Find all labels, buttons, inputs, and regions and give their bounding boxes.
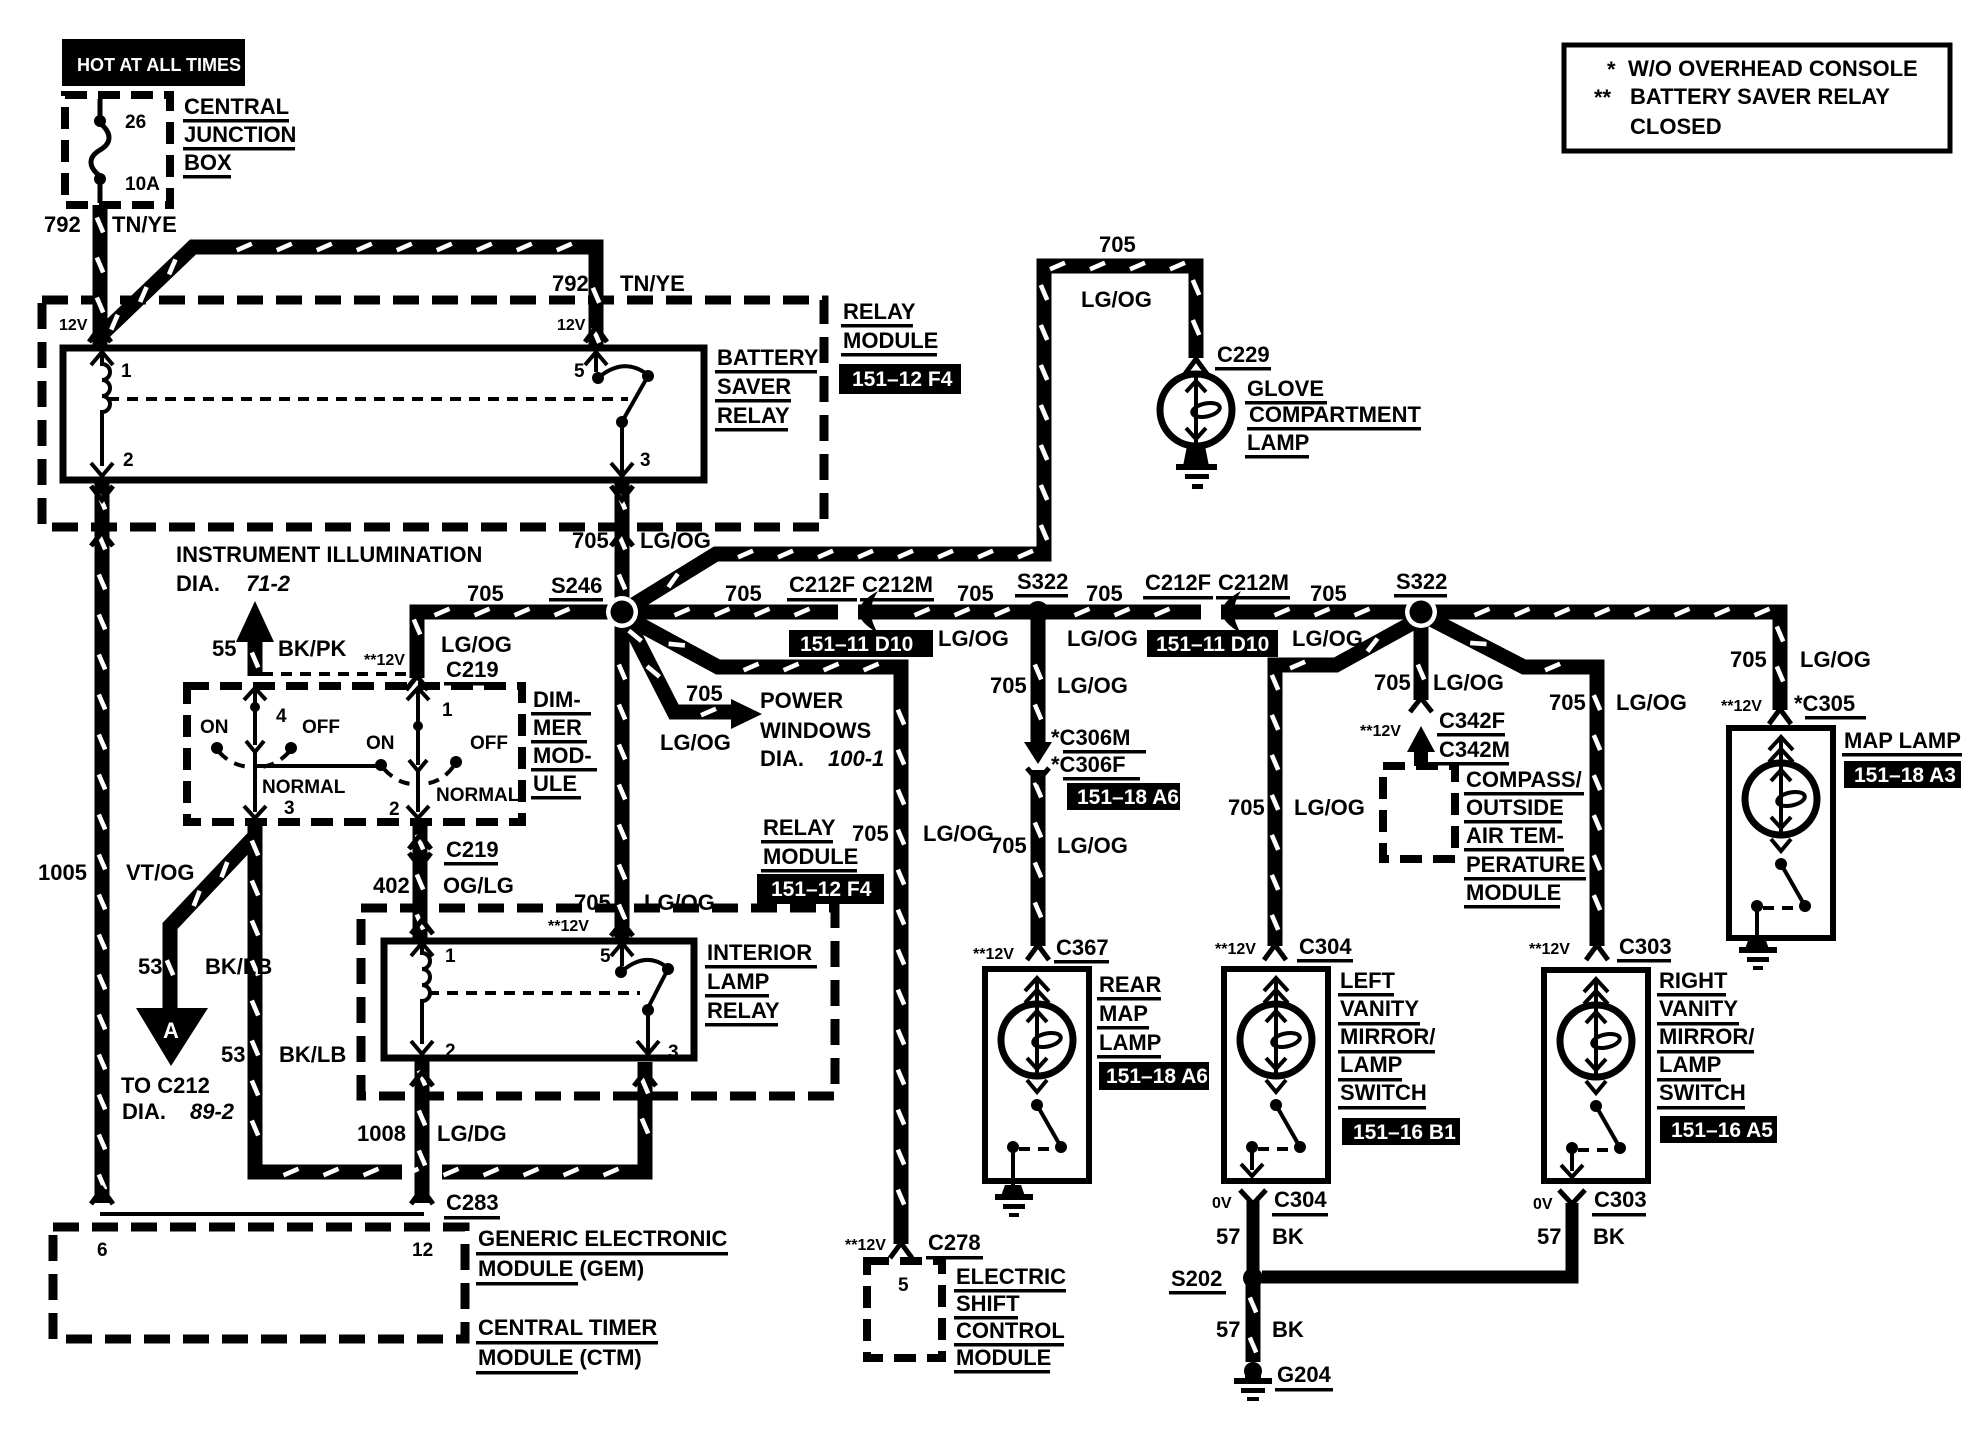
arrow A to C212	[136, 1008, 208, 1066]
dimmer switch pin1-2	[375, 688, 462, 818]
svg-text:705: 705	[467, 581, 504, 606]
svg-text:705: 705	[957, 581, 994, 606]
svg-text:BATTERY: BATTERY	[717, 345, 819, 370]
svg-text:2: 2	[445, 1041, 456, 1062]
wire 705 LG/OG relay pin3 to S246	[615, 482, 630, 612]
svg-text:705: 705	[574, 890, 611, 915]
wire 792 TN/YE branch to pin5	[100, 247, 596, 350]
svg-text:53: 53	[138, 954, 162, 979]
dimmer module dashed box	[187, 686, 522, 822]
svg-text:705: 705	[990, 673, 1027, 698]
map lamp ground	[1739, 938, 1777, 970]
wire 57 BK left vanity to S202	[1247, 1200, 1260, 1272]
svg-text:LG/OG: LG/OG	[1294, 795, 1365, 820]
svg-text:BATTERY SAVER RELAY: BATTERY SAVER RELAY	[1630, 84, 1890, 109]
legend box	[1564, 45, 1950, 151]
connector 12V splay left	[89, 327, 111, 342]
wire 1005 VT/OG relay pin2 to GEM	[95, 482, 110, 1203]
labels: A arrow / 53	[38, 860, 346, 1124]
connector C212F C212M gap 2	[1201, 601, 1221, 624]
svg-text:705: 705	[1730, 647, 1767, 672]
labels: bottom 57 BK / S202 / G204	[1169, 1187, 1647, 1392]
svg-text:LG/OG: LG/OG	[938, 626, 1009, 651]
svg-text:1: 1	[121, 361, 132, 382]
glove lamp ground	[1176, 446, 1217, 489]
svg-text:DIM-: DIM-	[533, 687, 581, 712]
module edge splays	[91, 532, 113, 546]
svg-text:LG/OG: LG/OG	[441, 632, 512, 657]
svg-text:C367: C367	[1056, 935, 1109, 960]
svg-text:SWITCH: SWITCH	[1340, 1080, 1427, 1105]
svg-text:BK: BK	[1593, 1224, 1625, 1249]
svg-text:705: 705	[1099, 232, 1136, 257]
splice node S246	[606, 596, 638, 628]
svg-text:*: *	[1607, 57, 1616, 82]
wire 705 LG/OG main bus to map lamp C305	[622, 612, 1780, 710]
svg-text:3: 3	[284, 798, 295, 819]
connector C283 splay right	[411, 1189, 433, 1204]
svg-text:1: 1	[445, 946, 456, 967]
svg-text:6: 6	[97, 1240, 108, 1261]
interior relay coil pins 1-2	[411, 943, 433, 1054]
svg-text:MODULE: MODULE	[1466, 880, 1561, 905]
svg-text:LAMP: LAMP	[1659, 1052, 1721, 1077]
wire 402 OG/LG dimmer pin2 to interior relay pin1	[413, 822, 428, 944]
svg-text:OFF: OFF	[470, 733, 508, 754]
svg-text:NORMAL: NORMAL	[262, 777, 346, 798]
svg-text:SAVER: SAVER	[717, 374, 791, 399]
svg-text:C229: C229	[1217, 342, 1270, 367]
svg-text:LAMP: LAMP	[1099, 1030, 1161, 1055]
svg-text:RELAY: RELAY	[707, 998, 780, 1023]
svg-text:**12V: **12V	[364, 652, 405, 669]
svg-text:C219: C219	[446, 657, 499, 682]
svg-text:12V: 12V	[557, 317, 586, 334]
dimmer link bar	[255, 764, 378, 768]
svg-text:*C305: *C305	[1794, 691, 1855, 716]
wire 55 BK/PK arrow stem	[248, 640, 263, 676]
svg-text:LG/OG: LG/OG	[1800, 647, 1871, 672]
svg-text:TO C212: TO C212	[121, 1073, 210, 1098]
svg-text:792: 792	[44, 212, 81, 237]
connector C303 splay	[1586, 945, 1608, 960]
connector C212F C212M arrow 2	[1222, 591, 1241, 633]
svg-text:LAMP: LAMP	[1340, 1052, 1402, 1077]
wire 57 BK S202 to G204	[1246, 1285, 1261, 1362]
svg-text:151–11 D10: 151–11 D10	[800, 633, 913, 656]
svg-text:2: 2	[123, 450, 134, 471]
svg-text:402: 402	[373, 873, 410, 898]
wire 57 BK S202 to right vanity	[1262, 1203, 1572, 1277]
labels: rear map lamp	[1097, 972, 1209, 1090]
svg-text:LG/OG: LG/OG	[644, 890, 715, 915]
svg-text:53: 53	[221, 1042, 245, 1067]
svg-text:LG/OG: LG/OG	[640, 528, 711, 553]
svg-text:POWER: POWER	[760, 688, 843, 713]
wire 705 LG/OG S246 power windows stub	[626, 618, 731, 712]
svg-text:AIR TEM-: AIR TEM-	[1466, 823, 1564, 848]
svg-text:MER: MER	[533, 715, 582, 740]
interior lamp relay box	[384, 941, 694, 1058]
central junction box (dashed)	[65, 95, 170, 205]
svg-text:151–11 D10: 151–11 D10	[1156, 633, 1269, 656]
svg-text:LG/OG: LG/OG	[1081, 287, 1152, 312]
svg-text:OFF: OFF	[302, 717, 340, 738]
svg-text:792: 792	[552, 271, 589, 296]
GEM/CTM dashed box	[53, 1227, 465, 1339]
svg-text:MODULE: MODULE	[956, 1345, 1051, 1370]
rear map lamp ground	[995, 1185, 1033, 1217]
svg-text:705: 705	[725, 581, 762, 606]
wire 705 LG/OG S322 riser to C306	[1031, 612, 1046, 742]
svg-text:705: 705	[1310, 581, 1347, 606]
wire stub C342M to compass box	[1414, 748, 1428, 766]
connector C306F splay	[1027, 768, 1049, 781]
connector C342M arrow	[1407, 726, 1435, 752]
map lamp bulb and switch	[1745, 737, 1817, 938]
connector C305 splay	[1769, 709, 1791, 724]
svg-text:ELECTRIC: ELECTRIC	[956, 1264, 1066, 1289]
rear map lamp box	[985, 969, 1089, 1181]
fuse 26 10A	[91, 99, 109, 203]
labels: vanity mirrors	[1215, 934, 1777, 1145]
svg-text:LG/OG: LG/OG	[1616, 690, 1687, 715]
svg-text:ON: ON	[200, 717, 229, 738]
svg-text:VANITY: VANITY	[1659, 996, 1738, 1021]
svg-text:MAP LAMP: MAP LAMP	[1844, 728, 1961, 753]
connector splay pin3 out	[611, 486, 633, 500]
svg-text:89-2: 89-2	[190, 1099, 235, 1124]
connector C219 splay	[406, 676, 428, 690]
relay link dashed	[108, 397, 628, 401]
svg-text:151–18 A6: 151–18 A6	[1077, 786, 1179, 809]
labels: power windows	[660, 681, 884, 771]
svg-text:RIGHT: RIGHT	[1659, 968, 1728, 993]
svg-text:*C306F: *C306F	[1051, 752, 1126, 777]
svg-text:VT/OG: VT/OG	[126, 860, 194, 885]
connector C283 line	[100, 1212, 424, 1216]
svg-text:705: 705	[1086, 581, 1123, 606]
right vanity bulb and switch	[1560, 979, 1632, 1177]
svg-text:LG/OG: LG/OG	[1292, 626, 1363, 651]
svg-text:1008: 1008	[357, 1121, 406, 1146]
svg-text:ULE: ULE	[533, 771, 577, 796]
svg-text:LG/OG: LG/OG	[1433, 670, 1504, 695]
connector C367 splay	[1027, 945, 1049, 960]
splice node S322 (1)	[1027, 601, 1049, 623]
svg-text:OG/LG: OG/LG	[443, 873, 514, 898]
wire 705 LG/OG S246 to interior lamp relay pin5	[615, 612, 630, 938]
svg-text:HOT AT ALL TIMES: HOT AT ALL TIMES	[77, 55, 241, 75]
svg-text:SWITCH: SWITCH	[1659, 1080, 1746, 1105]
connector 12V splay right	[585, 327, 607, 342]
svg-text:**12V: **12V	[1360, 723, 1401, 740]
svg-text:CONTROL: CONTROL	[956, 1318, 1065, 1343]
svg-text:TN/YE: TN/YE	[112, 212, 177, 237]
svg-text:151–18 A3: 151–18 A3	[1854, 764, 1956, 787]
hatch ticks	[97, 218, 1783, 1353]
svg-text:**: **	[1594, 85, 1612, 110]
labels: legend	[1594, 56, 1918, 139]
svg-text:LG/OG: LG/OG	[923, 821, 994, 846]
svg-text:OUTSIDE: OUTSIDE	[1466, 795, 1564, 820]
svg-text:5: 5	[574, 361, 585, 382]
relay module dashed box (interior lamp)	[361, 908, 835, 1096]
svg-text:INTERIOR: INTERIOR	[707, 940, 812, 965]
svg-text:57: 57	[1537, 1224, 1561, 1249]
svg-text:LAMP: LAMP	[1247, 430, 1309, 455]
svg-text:3: 3	[668, 1042, 679, 1063]
connector C212F C212M gap 1	[838, 601, 858, 624]
wire 53 BK/LB dimmer pin3 to interior relay pin3	[255, 828, 645, 1172]
svg-text:**12V: **12V	[1529, 941, 1570, 958]
svg-text:S246: S246	[551, 573, 602, 598]
svg-text:MODULE: MODULE	[763, 844, 858, 869]
wire 792 TN/YE fuse to relay	[93, 205, 108, 350]
svg-text:MODULE (CTM): MODULE (CTM)	[478, 1345, 642, 1370]
svg-text:LG/OG: LG/OG	[1057, 833, 1128, 858]
relay coil pins 1-2	[91, 352, 113, 476]
svg-text:151–12 F4: 151–12 F4	[771, 878, 872, 901]
connector C229 splay	[1185, 359, 1207, 374]
rear map lamp bulb and switch	[1001, 978, 1073, 1185]
svg-text:RELAY: RELAY	[763, 815, 836, 840]
svg-text:26: 26	[125, 112, 146, 133]
relay switch pins 5-3	[585, 352, 654, 476]
svg-text:C304: C304	[1299, 934, 1352, 959]
labels: 1008 / C283 / GEM	[97, 1121, 728, 1375]
connector C283 splay left	[91, 1189, 113, 1204]
wire 705 LG/OG S246 to electric shift module C278	[624, 616, 901, 1244]
svg-text:C304: C304	[1274, 1187, 1327, 1212]
wire 705 LG/OG S322 to right vanity C303	[1425, 616, 1597, 946]
labels: relay module 2	[757, 815, 994, 904]
labels: instrument illumination	[176, 542, 482, 661]
svg-text:55: 55	[212, 636, 236, 661]
svg-text:PERATURE: PERATURE	[1466, 852, 1585, 877]
svg-text:COMPASS/: COMPASS/	[1466, 767, 1582, 792]
svg-text:W/O OVERHEAD CONSOLE: W/O OVERHEAD CONSOLE	[1628, 56, 1918, 81]
svg-text:RELAY: RELAY	[843, 299, 916, 324]
wire 1008 LG/DG interior relay pin2 to C283	[415, 1058, 430, 1203]
hot at all times banner	[62, 39, 245, 86]
svg-text:C283: C283	[446, 1190, 499, 1215]
svg-text:0V: 0V	[1533, 1196, 1553, 1213]
svg-text:705: 705	[1374, 670, 1411, 695]
svg-text:**12V: **12V	[845, 1237, 886, 1254]
labels: S246 and bus	[364, 569, 1447, 686]
svg-text:CENTRAL TIMER: CENTRAL TIMER	[478, 1315, 657, 1340]
svg-text:BK/LB: BK/LB	[205, 954, 272, 979]
svg-text:1: 1	[442, 700, 453, 721]
connector C304 splay	[1264, 945, 1286, 960]
connector C212F C212M arrow 1	[859, 591, 878, 633]
svg-text:705: 705	[990, 833, 1027, 858]
svg-text:C212F: C212F	[1145, 570, 1211, 595]
wire 705 LG/OG C306 to C367 rear map lamp	[1031, 770, 1046, 946]
svg-text:C212F: C212F	[789, 572, 855, 597]
labels: compass module	[1228, 670, 1586, 909]
connector C278 splay	[890, 1243, 912, 1258]
svg-text:WINDOWS: WINDOWS	[760, 718, 871, 743]
svg-text:LAMP: LAMP	[707, 969, 769, 994]
svg-text:705: 705	[1228, 795, 1265, 820]
right vanity mirror lamp box	[1544, 970, 1648, 1181]
svg-text:151–12 F4: 151–12 F4	[852, 368, 953, 391]
connector splay pin2 out	[91, 486, 113, 500]
svg-text:C303: C303	[1619, 934, 1672, 959]
svg-text:MODULE (GEM): MODULE (GEM)	[478, 1256, 644, 1281]
svg-text:C303: C303	[1594, 1187, 1647, 1212]
svg-text:705: 705	[852, 821, 889, 846]
svg-text:12V: 12V	[59, 317, 88, 334]
svg-text:S202: S202	[1171, 1266, 1222, 1291]
svg-text:TN/YE: TN/YE	[620, 271, 685, 296]
svg-text:**12V: **12V	[548, 918, 589, 935]
svg-text:C342M: C342M	[1439, 737, 1510, 762]
svg-text:NORMAL: NORMAL	[436, 785, 520, 806]
svg-text:BK/LB: BK/LB	[279, 1042, 346, 1067]
svg-text:71-2: 71-2	[246, 571, 291, 596]
svg-text:**12V: **12V	[973, 946, 1014, 963]
svg-text:1005: 1005	[38, 860, 87, 885]
electric shift control module dashed box	[867, 1261, 942, 1358]
svg-text:COMPARTMENT: COMPARTMENT	[1249, 402, 1421, 427]
svg-text:A: A	[163, 1018, 179, 1043]
svg-text:BK: BK	[1272, 1224, 1304, 1249]
svg-text:MODULE: MODULE	[843, 328, 938, 353]
labels: dimmer module	[200, 687, 597, 898]
svg-text:MIRROR/: MIRROR/	[1340, 1024, 1435, 1049]
connector C342F splay	[1410, 698, 1432, 712]
svg-text:CENTRAL: CENTRAL	[184, 94, 289, 119]
svg-text:GLOVE: GLOVE	[1247, 376, 1324, 401]
labels: glove compartment lamp	[1081, 232, 1421, 459]
svg-text:3: 3	[640, 450, 651, 471]
svg-text:INSTRUMENT ILLUMINATION: INSTRUMENT ILLUMINATION	[176, 542, 482, 567]
relay module dashed box (battery saver)	[42, 300, 824, 527]
svg-text:JUNCTION: JUNCTION	[184, 122, 296, 147]
splice node S322 (2)	[1405, 596, 1437, 628]
svg-text:**12V: **12V	[1721, 698, 1762, 715]
svg-text:5: 5	[600, 946, 611, 967]
labels: relay module / battery saver relay	[121, 299, 961, 553]
wire 705 LG/OG bus left branch to C219	[417, 612, 622, 678]
svg-text:DIA.: DIA.	[176, 571, 220, 596]
wire 53 BK/LB dimmer pin3 to A arrow	[170, 822, 255, 1010]
arrow 55 BK/PK up	[236, 601, 274, 642]
svg-text:4: 4	[276, 706, 287, 727]
svg-text:BK/PK: BK/PK	[278, 636, 347, 661]
svg-text:CLOSED: CLOSED	[1630, 114, 1722, 139]
connector splay interior relay 12V	[611, 922, 633, 936]
svg-text:BOX: BOX	[184, 150, 232, 175]
svg-text:MAP: MAP	[1099, 1001, 1148, 1026]
svg-text:LG/DG: LG/DG	[437, 1121, 507, 1146]
svg-text:10A: 10A	[125, 174, 160, 195]
wire 705 LG/OG S322 to left vanity C304	[1275, 616, 1425, 946]
svg-text:12: 12	[412, 1240, 433, 1261]
svg-text:*C306M: *C306M	[1051, 725, 1130, 750]
lamp C229 glove compartment	[1160, 374, 1232, 446]
connector C219 splay lower	[409, 835, 431, 849]
battery saver relay box U1	[63, 348, 704, 480]
wire 705 LG/OG S322 to compass C342	[1414, 612, 1429, 700]
svg-text:57: 57	[1216, 1224, 1240, 1249]
interior relay switch pins 5-3	[611, 943, 674, 1054]
labels: interior lamp relay	[445, 890, 817, 1063]
left vanity mirror lamp box	[1224, 969, 1328, 1181]
svg-text:705: 705	[1549, 690, 1586, 715]
labels: S322 riser / C306 / C367	[973, 673, 1180, 964]
dashed link arrow to C219	[262, 672, 410, 676]
splice node S202	[1243, 1268, 1263, 1288]
svg-text:100-1: 100-1	[828, 746, 884, 771]
interior relay link dashed	[428, 991, 640, 995]
map lamp box	[1729, 728, 1833, 938]
dimmer switch pin4-3	[211, 688, 297, 818]
svg-text:151–18 A6: 151–18 A6	[1106, 1065, 1208, 1088]
svg-text:MIRROR/: MIRROR/	[1659, 1024, 1754, 1049]
svg-text:DIA.: DIA.	[760, 746, 804, 771]
connector C306M arrow	[1024, 742, 1052, 764]
svg-text:C212M: C212M	[862, 572, 933, 597]
svg-text:C212M: C212M	[1218, 570, 1289, 595]
svg-text:BK: BK	[1272, 1317, 1304, 1342]
labels: right riser / map lamp	[1549, 647, 1962, 788]
labels: electric shift control module	[845, 1230, 1066, 1374]
svg-text:57: 57	[1216, 1317, 1240, 1342]
svg-text:5: 5	[898, 1275, 909, 1296]
wire 1008 over crossing	[415, 1150, 430, 1203]
compass module dashed box	[1383, 766, 1455, 859]
svg-text:LG/OG: LG/OG	[660, 730, 731, 755]
gap at 1008 crossing	[402, 1152, 442, 1192]
left vanity bulb and switch	[1240, 978, 1312, 1176]
svg-text:VANITY: VANITY	[1340, 996, 1419, 1021]
svg-text:2: 2	[389, 799, 400, 820]
svg-text:C342F: C342F	[1439, 708, 1505, 733]
svg-text:151–16 B1: 151–16 B1	[1353, 1121, 1456, 1144]
svg-text:G204: G204	[1277, 1362, 1332, 1387]
svg-text:DIA.: DIA.	[122, 1099, 166, 1124]
svg-text:LEFT: LEFT	[1340, 968, 1396, 993]
svg-text:**12V: **12V	[1215, 941, 1256, 958]
svg-text:LG/OG: LG/OG	[1067, 626, 1138, 651]
connector C304 bottom splay	[1240, 1190, 1266, 1204]
svg-text:ON: ON	[366, 733, 395, 754]
svg-text:SHIFT: SHIFT	[956, 1291, 1020, 1316]
arrow power windows	[731, 699, 762, 729]
svg-text:C219: C219	[446, 837, 499, 862]
svg-text:705: 705	[686, 681, 723, 706]
svg-text:0V: 0V	[1212, 1195, 1232, 1212]
connector C303 bottom splay	[1559, 1190, 1585, 1204]
svg-text:RELAY: RELAY	[717, 403, 790, 428]
svg-text:S322: S322	[1396, 569, 1447, 594]
svg-text:151–16 A5: 151–16 A5	[1671, 1119, 1773, 1142]
svg-text:MOD-: MOD-	[533, 743, 592, 768]
svg-text:705: 705	[572, 528, 609, 553]
svg-text:LG/OG: LG/OG	[1057, 673, 1128, 698]
svg-text:S322: S322	[1017, 569, 1068, 594]
wire 705 LG/OG S246 to glove compartment lamp	[622, 266, 1196, 612]
svg-text:REAR: REAR	[1099, 972, 1161, 997]
svg-text:C278: C278	[928, 1230, 981, 1255]
svg-text:GENERIC ELECTRONIC: GENERIC ELECTRONIC	[478, 1226, 727, 1251]
